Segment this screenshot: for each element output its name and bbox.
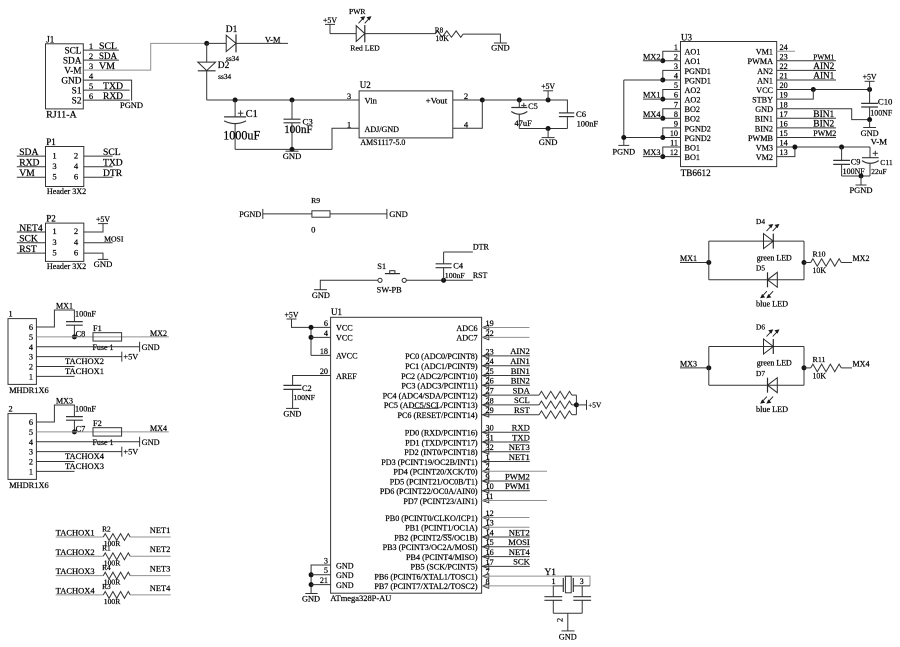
wire LED to R8 — [365, 33, 435, 35]
svg-text:PD5 (PCINT21/OC0B/T1): PD5 (PCINT21/OC0B/T1) — [390, 477, 478, 486]
svg-text:D1: D1 — [226, 25, 238, 35]
svg-text:AIN2: AIN2 — [813, 61, 834, 71]
svg-text:6: 6 — [74, 247, 79, 257]
svg-text:22uF: 22uF — [871, 167, 886, 176]
svg-text:23: 23 — [486, 347, 494, 356]
svg-text:F2: F2 — [93, 419, 102, 428]
svg-text:+Vout: +Vout — [426, 97, 448, 106]
wire pin 28 — [482, 404, 539, 406]
wire P1 pin2 SCL — [84, 155, 113, 157]
svg-text:1: 1 — [52, 150, 56, 160]
svg-text:SW-PB: SW-PB — [377, 285, 403, 294]
wire power rail to U2 Vin — [207, 99, 359, 101]
svg-text:RST: RST — [514, 405, 531, 415]
wire U3 pin2 — [663, 60, 681, 62]
wire D1 anode — [207, 42, 227, 44]
pin 22 ADC7 — [456, 329, 493, 343]
wire pin4 to GND — [36, 441, 139, 443]
wire bottom branch — [709, 384, 804, 386]
svg-text:7: 7 — [674, 100, 678, 109]
svg-text:PC1 (ADC1/PCINT9): PC1 (ADC1/PCINT9) — [405, 362, 478, 371]
svg-text:TACHOX4: TACHOX4 — [56, 587, 96, 596]
wire U3 pin4 — [663, 79, 681, 81]
svg-text:SCL: SCL — [64, 47, 81, 57]
svg-text:3: 3 — [29, 353, 33, 362]
power +5V symbol at P2 — [96, 215, 110, 224]
svg-text:4: 4 — [29, 438, 34, 447]
node ground tap — [546, 126, 551, 131]
svg-text:18: 18 — [780, 100, 788, 109]
wire R1 to NET2 — [130, 555, 170, 557]
svg-text:PD0 (RXD/PCINT16): PD0 (RXD/PCINT16) — [405, 429, 478, 438]
svg-text:green LED: green LED — [757, 359, 792, 368]
svg-text:MX3: MX3 — [680, 359, 697, 368]
svg-text:5: 5 — [324, 566, 328, 575]
node VCC junction pin4 — [309, 335, 314, 340]
svg-text:P1: P1 — [46, 137, 56, 147]
svg-text:1: 1 — [486, 453, 490, 462]
wire pin 13 — [482, 526, 530, 528]
svg-text:PB6 (PCINT6/XTAL1/TOSC1): PB6 (PCINT6/XTAL1/TOSC1) — [374, 572, 478, 581]
svg-text:GND: GND — [491, 43, 510, 53]
LED D5 blue LED — [756, 264, 788, 309]
svg-text:2: 2 — [29, 363, 33, 372]
wire pin6 to MX1 and C8 — [36, 310, 74, 327]
wire U3 pin17 — [777, 117, 836, 119]
svg-text:GND: GND — [142, 438, 160, 447]
svg-text:AO1: AO1 — [685, 48, 701, 57]
resistor pull-up R6 10K on SCL — [539, 401, 572, 409]
wire P1 pin1 SDA — [17, 155, 46, 157]
node C1 tap — [233, 98, 238, 103]
svg-text:100NF: 100NF — [870, 108, 893, 117]
svg-text:BIN1: BIN1 — [755, 115, 773, 124]
svg-text:4: 4 — [89, 71, 94, 81]
capacitor C3 100nF — [284, 100, 314, 149]
pin 9 PD5 (PCINT21/OC0B/T1) — [390, 472, 490, 486]
svg-text:TACHOX1: TACHOX1 — [56, 529, 95, 538]
svg-text:4: 4 — [29, 343, 34, 352]
wire pull-up +5V bus vertical — [575, 395, 577, 415]
wire U2 Vout pin2 — [453, 99, 483, 101]
svg-text:U1: U1 — [331, 307, 342, 317]
fuse F1 — [93, 324, 122, 352]
wire U3 pin6 — [663, 98, 681, 100]
wire pin 16 — [482, 556, 530, 558]
svg-text:J1: J1 — [46, 35, 54, 45]
wire R8 to GND — [463, 34, 500, 43]
capacitor C4 100nF — [436, 252, 466, 280]
svg-text:TB6612: TB6612 — [681, 168, 711, 178]
svg-text:MX1: MX1 — [680, 254, 697, 263]
svg-text:16: 16 — [486, 548, 494, 557]
IC U1 ATmega328P-AU — [330, 307, 481, 603]
pin 10 PD6 (PCINT22/OC0A/AIN0) — [380, 482, 494, 496]
svg-text:14: 14 — [486, 528, 494, 537]
svg-text:100NF: 100NF — [293, 393, 315, 402]
fuse F2 — [93, 419, 122, 447]
svg-text:Header 3X2: Header 3X2 — [47, 187, 86, 196]
svg-text:C11: C11 — [880, 158, 893, 167]
pin 8 PB7 (PCINT7/XTAL2/TOSC2) — [374, 577, 489, 591]
svg-text:100nF: 100nF — [577, 120, 599, 129]
diode D1 ss34 — [226, 25, 240, 63]
wire TACHOX2 to R1 — [56, 555, 104, 557]
svg-text:NET4: NET4 — [509, 547, 531, 557]
switch S1 SW-PB — [377, 261, 407, 294]
svg-text:+5V: +5V — [588, 401, 602, 410]
svg-text:C6: C6 — [576, 109, 587, 119]
wire U3 pin7 — [663, 109, 681, 119]
svg-text:25: 25 — [486, 367, 494, 376]
svg-text:AREF: AREF — [336, 372, 357, 381]
svg-text:10K: 10K — [435, 34, 449, 43]
svg-text:PWR: PWR — [349, 7, 366, 16]
svg-text:MX2: MX2 — [150, 329, 167, 338]
wire TACHOX1 to R2 — [56, 536, 104, 538]
resistor R11 10K — [811, 355, 842, 381]
svg-text:SDA: SDA — [19, 147, 38, 158]
node U3 pin12 junction — [660, 154, 665, 159]
svg-text:NET2: NET2 — [150, 545, 171, 554]
svg-text:R10: R10 — [813, 250, 826, 259]
svg-text:Fuse 1: Fuse 1 — [93, 438, 114, 447]
svg-text:NET3: NET3 — [150, 565, 171, 574]
wire R3 to NET4 — [130, 594, 170, 596]
svg-text:D5: D5 — [756, 264, 765, 273]
svg-text:12: 12 — [486, 509, 494, 518]
wire P1 pin5 VM — [17, 176, 46, 178]
resistor R9 0 ohm — [311, 196, 330, 235]
pin 31 PD1 (TXD/PCINT17) — [405, 433, 494, 447]
ground symbol below C10 — [861, 120, 879, 139]
ground symbol below C5 C6 — [539, 129, 558, 148]
wire D2 anode from VM node — [206, 43, 208, 62]
svg-text:ADC7: ADC7 — [456, 334, 477, 343]
svg-text:R3: R3 — [102, 582, 111, 591]
ground symbol PGND below C9 C11 — [849, 176, 872, 195]
svg-text:MX4: MX4 — [643, 110, 661, 119]
svg-text:NET4: NET4 — [19, 223, 43, 234]
svg-text:SCL: SCL — [514, 395, 530, 405]
svg-text:PGND2: PGND2 — [685, 124, 711, 133]
svg-text:GND: GND — [755, 105, 773, 114]
wire U3 pin23 — [777, 60, 836, 62]
wire U3 pin22 — [777, 69, 836, 71]
wire pin 9 — [482, 480, 530, 482]
wire pin4 to GND — [36, 346, 139, 348]
wire VCC pin4 pin18 bus — [310, 327, 312, 355]
wire to +5V bus — [572, 414, 577, 416]
svg-text:6: 6 — [324, 319, 328, 328]
svg-text:NET1: NET1 — [509, 452, 530, 462]
wire GND to S1 — [320, 280, 378, 289]
node +5V C10 junction — [867, 87, 872, 92]
svg-text:1: 1 — [551, 577, 555, 586]
wire J1 pin4 to PGND — [83, 80, 131, 101]
svg-text:6: 6 — [89, 91, 94, 101]
svg-text:8: 8 — [486, 577, 490, 586]
wire U3 pin16 — [777, 127, 836, 129]
ground flag PGND at R9 — [239, 209, 263, 219]
svg-text:21: 21 — [320, 576, 328, 585]
svg-text:100nF: 100nF — [75, 309, 96, 318]
wire pin2 TACHOX4 — [36, 461, 74, 463]
wire pin 15 — [482, 546, 530, 548]
node U3 pin4 junction — [660, 77, 665, 82]
svg-text:10K: 10K — [813, 266, 827, 275]
svg-text:3: 3 — [580, 577, 584, 586]
svg-text:NET3: NET3 — [509, 442, 530, 452]
node STBY junction — [811, 87, 816, 92]
svg-text:3: 3 — [674, 62, 678, 71]
node C9 junction — [839, 145, 844, 150]
node LED branch right — [802, 260, 807, 265]
svg-text:C4: C4 — [453, 262, 464, 271]
node +5V tap — [546, 98, 551, 103]
wire P2 pin1 NET4 — [17, 231, 46, 233]
pin 23 PC0 (ADC0/PCINT8) — [405, 347, 494, 361]
wire ground bus below C5 C6 — [519, 128, 567, 130]
resistor R10 10K — [811, 250, 842, 276]
resistor pull-up R5 10K on SDA — [539, 391, 572, 399]
svg-text:MOSI: MOSI — [104, 235, 124, 244]
svg-text:AN1: AN1 — [757, 76, 773, 85]
overline RESET — [413, 408, 439, 410]
node C8 junction — [72, 334, 77, 339]
svg-text:S1: S1 — [72, 87, 82, 97]
svg-text:GND: GND — [283, 409, 301, 418]
svg-text:GND: GND — [312, 291, 330, 300]
svg-text:GND: GND — [94, 259, 113, 269]
wire PGND2 to PGND rail — [624, 136, 663, 138]
wire pin20 AREF to C2 — [293, 376, 331, 386]
power flag +5V at pull-ups — [587, 400, 602, 410]
power +5V symbol at U3 — [863, 73, 877, 90]
svg-text:R2: R2 — [102, 524, 111, 533]
svg-text:PWM2: PWM2 — [505, 471, 530, 481]
wire C9 C11 ground bus — [842, 175, 870, 177]
capacitor C6 100nF — [559, 109, 599, 129]
svg-text:GND: GND — [142, 343, 160, 352]
svg-text:AVCC: AVCC — [336, 352, 358, 361]
svg-text:16: 16 — [780, 119, 788, 128]
wire +5V to LED — [330, 33, 356, 35]
wire top branch — [709, 240, 804, 242]
ground flag GND — [140, 437, 160, 447]
wire J1 pin3 VM to D1/D2 — [83, 43, 206, 70]
svg-text:0: 0 — [311, 225, 315, 235]
wire P2 pin2 to +5V — [84, 224, 103, 232]
svg-text:24: 24 — [486, 357, 494, 366]
node C10 ground junction — [867, 117, 872, 122]
svg-text:PB0 (PCINT0/CLKO/ICP1): PB0 (PCINT0/CLKO/ICP1) — [385, 514, 478, 523]
wire U3 pin8 — [663, 117, 681, 119]
wire U3 STBY pin19 — [777, 90, 814, 100]
svg-text:blue LED: blue LED — [756, 300, 788, 309]
svg-text:AN2: AN2 — [757, 67, 773, 76]
pin 30 PD0 (RXD/PCINT16) — [405, 424, 494, 438]
wire +5V rail to C6 — [482, 100, 567, 113]
node pull-up junction — [574, 402, 579, 407]
wire TACHOX4 to R3 — [56, 594, 104, 596]
svg-text:+5V: +5V — [541, 82, 555, 91]
svg-text:NET4: NET4 — [150, 584, 171, 593]
wire PGND to R9 — [263, 213, 312, 215]
wire pin8 XTAL2 to crystal — [482, 585, 554, 587]
svg-text:NET1: NET1 — [150, 526, 171, 535]
node LED branch left — [706, 365, 711, 370]
pin 19 ADC6 — [456, 319, 493, 333]
svg-text:6: 6 — [74, 172, 79, 182]
svg-text:14: 14 — [780, 139, 788, 148]
svg-text:Vin: Vin — [365, 96, 378, 106]
svg-text:AO2: AO2 — [685, 86, 701, 95]
wire C4 to DTR — [444, 251, 473, 253]
pin 7 PB6 (PCINT6/XTAL1/TOSC1) — [374, 568, 489, 582]
svg-text:TACHOX2: TACHOX2 — [56, 548, 95, 557]
IC U3 TB6612 — [681, 32, 777, 178]
svg-text:S2: S2 — [72, 97, 82, 107]
svg-text:R11: R11 — [813, 355, 826, 364]
wire U3 pin24 stub — [777, 50, 795, 52]
node Vout junction — [480, 98, 485, 103]
svg-text:DTR: DTR — [103, 168, 123, 179]
wire D2 cathode to power rail — [206, 71, 208, 100]
svg-text:PWMB: PWMB — [748, 134, 774, 143]
svg-text:BIN2: BIN2 — [813, 119, 834, 129]
svg-text:D4: D4 — [756, 217, 765, 226]
wire left branch vertical — [708, 347, 710, 386]
svg-text:BO1: BO1 — [685, 143, 700, 152]
svg-text:5: 5 — [674, 81, 678, 90]
ground symbol PGND — [613, 145, 636, 156]
node C3 tap — [290, 98, 295, 103]
connector J1 RJ11-A — [46, 35, 94, 121]
svg-text:6: 6 — [29, 418, 33, 427]
svg-text:17: 17 — [780, 110, 788, 119]
wire stub MX4 — [643, 117, 663, 119]
node LED branch left — [706, 260, 711, 265]
svg-text:MX4: MX4 — [853, 359, 870, 368]
svg-text:D2: D2 — [218, 61, 230, 71]
pin 32 PD2 (INT0/PCINT18) — [404, 443, 493, 457]
svg-text:BIN2: BIN2 — [511, 376, 530, 386]
svg-text:10: 10 — [486, 482, 494, 491]
svg-text:PWM1: PWM1 — [505, 481, 530, 491]
node GND junction pin5 — [309, 572, 314, 577]
svg-text:MHDR1X6: MHDR1X6 — [9, 386, 49, 395]
ground symbol below U1 — [302, 594, 320, 604]
capacitor C5 47uF — [511, 100, 538, 129]
crystal Y1 — [545, 568, 591, 593]
power +5V symbol at regulator output — [541, 82, 555, 100]
svg-text:MX4: MX4 — [150, 424, 167, 433]
svg-text:32: 32 — [486, 443, 494, 452]
svg-text:TACHOX3: TACHOX3 — [65, 462, 104, 471]
svg-text:11: 11 — [486, 492, 494, 501]
wire R11 to MX4 — [841, 367, 852, 369]
capacitor C7 100nF — [66, 404, 96, 433]
pin 27 PC4 (ADC4/SDA/PCINT12) — [383, 387, 494, 401]
wire to R10 — [804, 262, 811, 264]
pin 2 PD4 (PCINT20/XCK/T0) — [393, 463, 489, 477]
svg-text:28: 28 — [486, 396, 494, 405]
wire pin5 to MX4 — [36, 431, 168, 433]
pin 12 PB0 (PCINT0/CLKO/ICP1) — [385, 509, 493, 523]
svg-text:MX2: MX2 — [643, 52, 661, 61]
svg-text:2: 2 — [556, 618, 565, 622]
svg-text:TXD: TXD — [103, 158, 123, 169]
wire stub MX3 — [643, 156, 663, 158]
svg-text:MX1: MX1 — [643, 91, 661, 100]
wire ground bus below C1 C3 — [235, 148, 332, 150]
svg-text:PD6 (PCINT22/OC0A/AIN0): PD6 (PCINT22/OC0A/AIN0) — [380, 487, 478, 496]
pin 26 PC3 (ADC3/PCINT11) — [401, 377, 493, 391]
svg-text:2: 2 — [74, 226, 78, 236]
pin 16 PB4 (PCINT4/MISO) — [406, 548, 494, 562]
svg-text:PC0 (ADC0/PCINT8): PC0 (ADC0/PCINT8) — [405, 352, 478, 361]
wire pin 27 — [482, 394, 539, 396]
svg-text:5: 5 — [52, 172, 56, 182]
wire GND pins bus — [311, 565, 331, 594]
svg-text:ADJ/GND: ADJ/GND — [365, 125, 400, 134]
svg-text:RXD: RXD — [19, 158, 39, 169]
svg-text:GND: GND — [336, 561, 354, 570]
svg-text:AIN2: AIN2 — [510, 346, 530, 356]
svg-text:SCK: SCK — [513, 557, 531, 567]
node ground bus junction — [290, 147, 295, 152]
wire stub MX2 — [643, 60, 663, 62]
ground symbol below crystal — [559, 631, 577, 641]
node U3 pin6 junction — [660, 97, 665, 102]
wire U3 VCC pin20 to +5V — [777, 89, 870, 91]
resistor R3 100R — [102, 582, 130, 606]
svg-text:RXD: RXD — [103, 92, 123, 102]
ground symbol at S1 — [312, 290, 330, 300]
wire R9 to GND — [330, 213, 387, 215]
wire to +5V flag — [576, 404, 586, 406]
svg-text:ADC6: ADC6 — [456, 324, 477, 333]
pin 29 PC6 (RESET/PCINT14) — [397, 406, 493, 420]
svg-text:100nF: 100nF — [75, 404, 96, 413]
svg-text:TACHOX2: TACHOX2 — [65, 357, 104, 366]
svg-text:2: 2 — [74, 150, 78, 160]
svg-text:U3: U3 — [681, 32, 692, 42]
svg-text:13: 13 — [486, 519, 494, 528]
svg-text:P2: P2 — [46, 213, 56, 223]
node GND junction pin21 — [309, 582, 314, 587]
svg-text:DTR: DTR — [473, 243, 490, 252]
wire U3 pin12 — [663, 156, 681, 158]
svg-text:23: 23 — [780, 52, 788, 61]
wire pin3 to +5V — [36, 356, 121, 358]
LED D7 blue LED — [756, 369, 788, 414]
svg-text:PGND: PGND — [239, 210, 261, 219]
node LED branch right — [802, 365, 807, 370]
wire to +5V bus — [572, 394, 577, 396]
svg-text:TXD: TXD — [512, 432, 530, 442]
svg-text:D6: D6 — [756, 323, 765, 332]
svg-text:R9: R9 — [311, 196, 320, 205]
svg-text:1: 1 — [89, 41, 93, 51]
svg-text:PD7 (PCINT23/AIN1): PD7 (PCINT23/AIN1) — [403, 497, 478, 506]
svg-text:BO1: BO1 — [685, 153, 700, 162]
svg-text:SDA: SDA — [513, 385, 531, 395]
pin 14 PB2 (PCINT2/SS/OC1B) — [394, 528, 493, 542]
ground flag GND at R9 — [387, 209, 408, 219]
svg-text:100nF: 100nF — [445, 271, 466, 280]
